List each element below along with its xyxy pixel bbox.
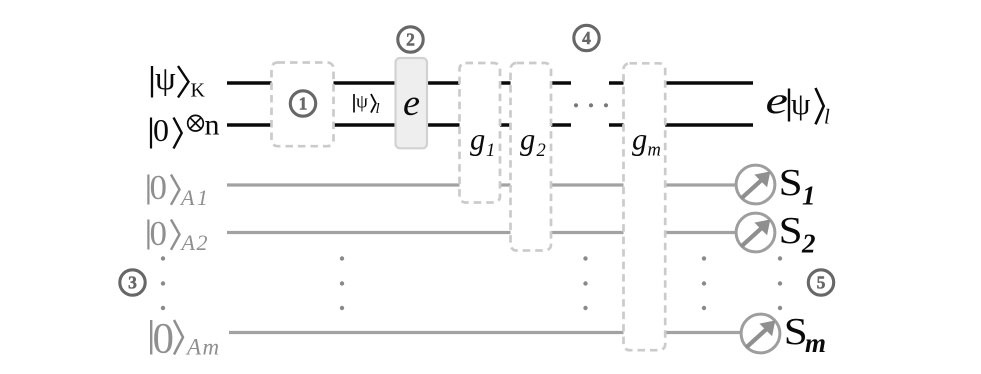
tensor product symbol bbox=[188, 115, 204, 131]
circled 2 bbox=[398, 27, 423, 52]
ancilla label 0 A2 bbox=[148, 214, 207, 255]
vertical dots column below state labels bbox=[161, 256, 165, 310]
output label e psi l bbox=[766, 80, 831, 129]
svg-text:g: g bbox=[632, 123, 647, 157]
ancilla label 0 A1 bbox=[148, 168, 208, 210]
svg-text:5: 5 bbox=[817, 273, 826, 293]
gate g2 box (dashed) bbox=[511, 63, 552, 251]
input label psi K bbox=[152, 61, 206, 102]
circled 5 bbox=[808, 270, 833, 295]
ancilla label 0 Am bbox=[151, 316, 219, 363]
svg-text:1: 1 bbox=[197, 185, 208, 210]
svg-text:1: 1 bbox=[299, 94, 308, 114]
vertical dots column under encoder bbox=[340, 256, 344, 310]
svg-text:n: n bbox=[205, 109, 220, 142]
svg-text:l: l bbox=[376, 101, 380, 117]
svg-text:g: g bbox=[470, 123, 485, 157]
svg-text:K: K bbox=[191, 80, 206, 102]
mid label psi l bbox=[354, 92, 380, 117]
label S2 bbox=[779, 210, 816, 259]
label g1 bbox=[470, 123, 495, 162]
svg-text:g: g bbox=[520, 123, 535, 157]
wire: ancilla A1 (y=185) bbox=[227, 183, 738, 186]
svg-text:4: 4 bbox=[582, 28, 591, 48]
svg-text:ψ: ψ bbox=[155, 61, 176, 97]
circled 3 bbox=[120, 270, 145, 295]
svg-text:3: 3 bbox=[128, 273, 137, 293]
label Sm bbox=[784, 311, 826, 358]
label g2 bbox=[520, 123, 546, 162]
vertical dots column between g2 and gm bbox=[583, 256, 587, 310]
vertical dots column below S labels bbox=[778, 256, 782, 310]
svg-text:ψ: ψ bbox=[356, 92, 368, 113]
gate g1 box (dashed) bbox=[460, 63, 501, 203]
svg-text:ψ: ψ bbox=[791, 86, 811, 121]
circled 4 bbox=[574, 25, 599, 50]
svg-text:l: l bbox=[824, 105, 830, 129]
encoder box step 1 (dashed) bbox=[272, 63, 334, 147]
svg-text:A: A bbox=[180, 230, 196, 255]
wire: top data wire K (y=83) bbox=[227, 81, 753, 85]
svg-text:A: A bbox=[185, 335, 202, 360]
error gate e box (step 2) bbox=[396, 58, 428, 148]
wire: second data wire (y=125) bbox=[227, 123, 753, 127]
ellipsis dots between g2 and gm wires bbox=[574, 103, 608, 107]
label gm bbox=[632, 123, 661, 161]
svg-text:0: 0 bbox=[150, 214, 168, 253]
svg-text:S: S bbox=[779, 210, 803, 252]
svg-text:1: 1 bbox=[486, 141, 495, 161]
svg-text:1: 1 bbox=[802, 181, 816, 211]
svg-text:S: S bbox=[779, 162, 803, 204]
vertical dots column between gm and meters bbox=[702, 256, 706, 310]
circled 1 bbox=[290, 91, 315, 116]
gate gm box (dashed) bbox=[624, 63, 666, 350]
meter Sm bbox=[741, 314, 780, 353]
wire: ancilla A2 (y=232.5) bbox=[227, 231, 738, 234]
svg-text:e: e bbox=[403, 83, 420, 124]
svg-text:0: 0 bbox=[150, 168, 168, 207]
input label 0 tensor n bbox=[151, 109, 220, 149]
svg-text:0: 0 bbox=[153, 112, 169, 148]
label S1 bbox=[779, 162, 816, 211]
svg-text:A: A bbox=[179, 185, 195, 210]
svg-text:0: 0 bbox=[153, 316, 175, 363]
meter S2 bbox=[736, 213, 775, 252]
wire: ancilla Am (y=332.5) bbox=[229, 331, 741, 334]
meter S1 bbox=[736, 165, 775, 204]
svg-text:m: m bbox=[648, 141, 661, 161]
svg-text:e: e bbox=[766, 80, 789, 122]
svg-text:2: 2 bbox=[537, 141, 546, 161]
svg-text:m: m bbox=[805, 328, 826, 358]
svg-text:2: 2 bbox=[801, 229, 816, 259]
svg-text:m: m bbox=[203, 335, 220, 360]
svg-text:2: 2 bbox=[406, 30, 415, 50]
svg-text:2: 2 bbox=[197, 230, 208, 255]
